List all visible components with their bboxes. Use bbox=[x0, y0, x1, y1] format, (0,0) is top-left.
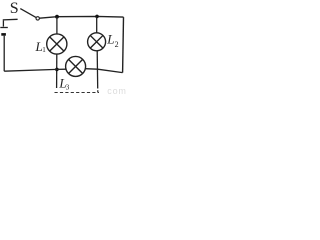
svg-text:1: 1 bbox=[42, 46, 46, 54]
node A junction dot bbox=[55, 15, 59, 19]
wire bottom-left from battery to lamp L3 bbox=[4, 69, 66, 71]
wire from switch contact to node A bbox=[40, 17, 58, 19]
battery B1 bottom lead bbox=[3, 36, 5, 71]
wire top-left from battery corner to switch hinge bbox=[3, 19, 17, 21]
switch contact circle bbox=[36, 17, 39, 20]
dashed selection box bottom edge bbox=[55, 92, 100, 94]
wire L1 bottom lead (continues as left edge of dashed box) bbox=[56, 54, 58, 88]
node C junction dot on bottom wire bbox=[55, 68, 59, 72]
switch S blade bbox=[20, 9, 36, 18]
battery B1 bottom plate (short thick) bbox=[1, 33, 6, 36]
svg-text:S: S bbox=[10, 0, 19, 17]
battery B1 top plate (long) bbox=[0, 27, 8, 29]
battery B1 top lead bbox=[2, 21, 4, 27]
wire bottom-right from lamp L3 to right corner bbox=[85, 69, 122, 73]
node B junction dot bbox=[95, 15, 99, 19]
lamp L3 bbox=[66, 56, 86, 76]
wire L2 bottom lead (continues as right edge of dashed box) bbox=[96, 51, 99, 89]
svg-text:L: L bbox=[106, 32, 114, 47]
lamp L2 bbox=[88, 33, 106, 51]
wire L2 top lead bbox=[96, 16, 98, 33]
dash of box right edge bbox=[97, 90, 99, 92]
wire top (node A to node B to top-right corner) bbox=[57, 15, 124, 18]
svg-text:com: com bbox=[107, 86, 126, 95]
svg-text:3: 3 bbox=[66, 83, 70, 91]
wire L1 top lead bbox=[56, 17, 58, 34]
lamp L1 bbox=[47, 34, 67, 54]
svg-text:2: 2 bbox=[115, 40, 119, 49]
wire right side bbox=[122, 17, 125, 73]
